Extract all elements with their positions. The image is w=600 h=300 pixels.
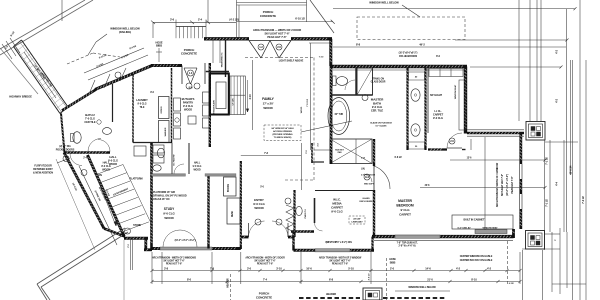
laundry south wall	[133, 142, 172, 144]
svg-text:TILE: TILE	[140, 106, 145, 109]
pwdr toilet	[296, 206, 302, 215]
family access note dashed box	[264, 125, 301, 141]
svg-text:9'-8 1/2: 9'-8 1/2	[394, 157, 402, 159]
master toilet	[333, 76, 337, 86]
svg-text:HEADER: HEADER	[326, 293, 336, 296]
svg-text:DESK: DESK	[232, 211, 234, 217]
dimension line along NW diagonal	[88, 55, 148, 80]
svg-text:4'-2: 4'-2	[456, 266, 461, 270]
svg-text:SKYLIGHT HGT 7'-6": SKYLIGHT HGT 7'-6"	[329, 261, 350, 263]
linen dashed box	[349, 216, 365, 224]
butler counters east	[203, 92, 210, 103]
powder toilet	[157, 148, 164, 158]
svg-text:WINDOW WELL BELOW: WINDOW WELL BELOW	[369, 1, 399, 5]
exterior wall jog right of doors	[329, 39, 332, 66]
tub platform wall	[311, 143, 313, 163]
svg-text:SKYLIGHT HGT 7'-6": SKYLIGHT HGT 7'-6"	[501, 174, 504, 196]
nook cabinets top	[429, 69, 463, 77]
extension verticals from top wall	[518, 0, 520, 121]
family stairs	[230, 76, 246, 115]
pwdr east wall	[314, 198, 316, 223]
bath2 toilet	[73, 132, 81, 144]
bath-wic dividing wall	[373, 139, 375, 166]
exterior wall top A-right	[291, 37, 332, 40]
bath2 shower	[103, 128, 112, 135]
front steps	[176, 26, 206, 28]
exterior wall top A-left	[204, 37, 249, 40]
svg-text:ARCH TRANSOM — WIDTH OF 2 DOOR: ARCH TRANSOM — WIDTH OF 2 DOOR	[253, 28, 301, 32]
svg-text:7'-0 CLG: 7'-0 CLG	[85, 117, 95, 121]
svg-text:STUDY: STUDY	[164, 207, 175, 211]
study french door arcs	[163, 230, 180, 247]
svg-text:7'-8" TOP (SUB HGT,: 7'-8" TOP (SUB HGT,	[397, 243, 418, 245]
corner L wall	[144, 238, 147, 250]
svg-text:17' x 20': 17' x 20'	[263, 102, 274, 106]
svg-text:WINDOW WELL BELOW: WINDOW WELL BELOW	[408, 286, 436, 289]
bridge corridor walls	[14, 47, 61, 114]
right dim horizontals	[333, 8, 575, 10]
nook interior line	[427, 67, 429, 134]
svg-text:24"x48": 24"x48"	[353, 218, 361, 221]
svg-text:ENCLOSURE: ENCLOSURE	[359, 201, 373, 203]
study east wall	[207, 176, 209, 249]
svg-text:TRANS. ON: TRANS. ON	[372, 78, 384, 81]
exterior wall D right of family	[464, 67, 467, 134]
family east extension lines	[310, 43, 312, 150]
svg-text:(10'-2" x 8'-6" x 8'-2") 46%: (10'-2" x 8'-6" x 8'-2") 46%	[326, 241, 352, 244]
corridor wall west	[209, 63, 211, 147]
bridge dimension line	[10, 38, 20, 53]
svg-text:HALL: HALL	[103, 161, 110, 165]
vanity cabinets	[409, 72, 425, 80]
front door V	[184, 68, 191, 84]
svg-text:13'-6: 13'-6	[467, 158, 473, 160]
top dim labels mid	[333, 46, 566, 48]
svg-text:WOOD: WOOD	[164, 216, 174, 220]
svg-text:TRASH/RECYC: TRASH/RECYC	[221, 52, 224, 67]
outer site line SW	[56, 159, 95, 250]
laundry west wall	[132, 74, 134, 143]
svg-text:CENTER WINDOW ON GABLE: CENTER WINDOW ON GABLE	[460, 255, 493, 258]
svg-text:(RAILING): (RAILING)	[119, 30, 131, 34]
svg-text:7'-2 1/2: 7'-2 1/2	[582, 196, 585, 204]
vanity walls	[406, 68, 408, 150]
svg-text:10'-6: 10'-6	[306, 266, 312, 270]
bedroom south window band	[395, 235, 440, 238]
svg-text:7'-1 1/2: 7'-1 1/2	[546, 199, 549, 207]
svg-text:9'-0 CLG: 9'-0 CLG	[193, 166, 202, 168]
kitchen cabinets lower	[134, 146, 146, 156]
pwdr south wall	[291, 230, 314, 232]
exterior diagonal wall SW cap	[104, 229, 125, 237]
svg-text:2'-8" W x 4'-6" H): 2'-8" W x 4'-6" H)	[399, 245, 416, 248]
svg-text:WOOD: WOOD	[184, 108, 192, 112]
svg-text:LI. CL.: LI. CL.	[434, 109, 442, 113]
svg-text:9' CLG: 9' CLG	[400, 208, 410, 212]
svg-text:7'-1 1/2: 7'-1 1/2	[546, 157, 549, 165]
svg-text:GLASS DOOR: GLASS DOOR	[371, 81, 386, 84]
svg-text:BUILT IN CABINET: BUILT IN CABINET	[464, 219, 485, 222]
svg-text:(PROVIDE OPENING: (PROVIDE OPENING	[273, 134, 293, 136]
dashed verticals bottom	[230, 274, 232, 300]
bath west wall	[330, 66, 333, 164]
closet partition	[188, 143, 190, 174]
svg-text:5'-10: 5'-10	[348, 266, 354, 270]
svg-text:SKYLIGHT: SKYLIGHT	[430, 94, 443, 97]
laundry-butler wall	[171, 68, 173, 143]
window well below dashed rect top	[357, 17, 465, 40]
family dim vertical	[252, 60, 254, 130]
bath2 nw wall	[62, 90, 96, 111]
master bedroom door arc	[374, 166, 390, 189]
study south wall	[152, 247, 241, 250]
svg-text:BATH: BATH	[373, 102, 382, 106]
exterior wall C upper-middle	[331, 65, 467, 68]
entry east wall	[293, 190, 295, 237]
bottom extension verticals	[151, 252, 153, 284]
svg-text:ARCH TRANSOM - WIDTH OF 3 WIND: ARCH TRANSOM - WIDTH OF 3 WINDOWS	[152, 257, 196, 260]
svg-text:WOOD: WOOD	[301, 106, 303, 113]
svg-text:(10'-2" x 8'-6" x 8'-2"): (10'-2" x 8'-6" x 8'-2")	[175, 240, 196, 242]
svg-text:CONCRETE: CONCRETE	[256, 296, 272, 300]
svg-text:W/D SOFT: W/D SOFT	[364, 184, 375, 186]
svg-text:BATH 2: BATH 2	[85, 113, 95, 117]
svg-text:WOOD: WOOD	[102, 169, 110, 172]
svg-text:4'-10: 4'-10	[249, 94, 252, 100]
svg-text:6'-10 1/2: 6'-10 1/2	[295, 17, 305, 21]
exterior diagonal wall SW left	[64, 153, 104, 229]
nook door arc	[447, 133, 462, 148]
mud-set shower X box	[330, 139, 372, 164]
corridor south wall	[206, 71, 229, 73]
header dashed beam right	[383, 297, 446, 299]
svg-text:PEAK HGT 7'-6": PEAK HGT 7'-6"	[257, 263, 273, 266]
exterior wall top-left horizontal	[151, 64, 182, 67]
svg-text:PEAK HGT 7'-6": PEAK HGT 7'-6"	[166, 263, 182, 266]
nook bench right	[459, 80, 466, 130]
svg-text:ARCH TRANSOM - WIDTH OF 3 WIND: ARCH TRANSOM - WIDTH OF 3 WINDOW	[496, 162, 499, 207]
svg-text:BEDROOM: BEDROOM	[396, 204, 413, 208]
toilet room	[331, 94, 373, 96]
bottom-left corner wall	[124, 237, 148, 240]
svg-text:8'-8: 8'-8	[356, 43, 361, 47]
svg-text:BOOKS: BOOKS	[228, 183, 230, 192]
svg-text:3'-6: 3'-6	[170, 18, 175, 22]
roof diagonal upper-left	[0, 0, 85, 49]
svg-text:21'-0: 21'-0	[427, 277, 433, 281]
exterior diagonal wall SW right	[88, 155, 125, 236]
svg-text:9'-0 CLG: 9'-0 CLG	[108, 159, 118, 163]
svg-text:THEATER ABV: THEATER ABV	[213, 99, 216, 113]
svg-text:POCKET DOORS: POCKET DOORS	[56, 148, 75, 151]
dimension row top-door	[237, 21, 333, 23]
svg-text:HALL: HALL	[194, 162, 201, 165]
svg-text:CARPET: CARPET	[399, 213, 411, 217]
wic west wall lower	[292, 232, 294, 251]
bedroom north wall at nook	[428, 148, 447, 150]
svg-text:WOOD: WOOD	[193, 170, 201, 172]
svg-text:PAN: PAN	[338, 151, 342, 154]
svg-text:CONCRETE: CONCRETE	[181, 52, 197, 56]
svg-text:DRYER: DRYER	[161, 106, 163, 113]
bath2 south wall Q	[64, 151, 110, 153]
light shelf dashed	[245, 57, 313, 59]
entry east zigzag closet	[286, 205, 294, 232]
light shelf dashed vertical	[313, 58, 315, 166]
svg-text:PEAK HGT 7'-6": PEAK HGT 7'-6"	[511, 176, 514, 193]
study-entry cabinets	[224, 177, 237, 196]
double entry door triangles	[249, 41, 261, 59]
svg-text:60'-8 3/4: 60'-8 3/4	[570, 165, 573, 174]
bath shower NE	[357, 68, 373, 95]
svg-text:GLASS ON TUB DECK: GLASS ON TUB DECK	[370, 122, 392, 125]
entry north dim	[241, 155, 301, 157]
svg-text:ARCH TRANSOM - WIDTH OF 2 WIND: ARCH TRANSOM - WIDTH OF 2 WINDOW	[319, 257, 362, 260]
svg-text:4'-2: 4'-2	[487, 266, 492, 270]
wic south wall K	[294, 249, 375, 252]
svg-text:8'-10: 8'-10	[471, 277, 477, 281]
svg-text:84" WIDE BY 54" HIGH: 84" WIDE BY 54" HIGH	[272, 127, 294, 130]
svg-text:PEAK HGT 7'-6": PEAK HGT 7'-6"	[267, 35, 287, 39]
svg-text:CENTER BOX BAY ON GABLE: CENTER BOX BAY ON GABLE	[460, 259, 493, 262]
header dashed beam	[299, 297, 360, 299]
study west wall O	[150, 143, 153, 249]
pwdr door arc	[315, 223, 323, 231]
svg-text:G-6: G-6	[365, 175, 370, 179]
svg-text:WOOD: WOOD	[254, 206, 264, 210]
svg-text:HIGHWAY BRIDGE: HIGHWAY BRIDGE	[9, 95, 32, 99]
svg-text:HALL: HALL	[109, 155, 117, 159]
svg-text:ARCH TRANSOM - WIDTH OF 2 DOOR: ARCH TRANSOM - WIDTH OF 2 DOOR	[245, 257, 285, 260]
svg-text:-6 1/2: -6 1/2	[508, 283, 514, 285]
svg-text:BUTLER'S: BUTLER'S	[182, 97, 195, 101]
bedroom west wall upper	[373, 139, 375, 166]
svg-text:WASHER: WASHER	[164, 127, 167, 136]
svg-text:9'-0 CLG: 9'-0 CLG	[331, 210, 343, 214]
svg-text:WINDOW WELL BELOW: WINDOW WELL BELOW	[110, 27, 140, 31]
bedroom south wall inner face	[374, 239, 513, 241]
svg-text:49'-2: 49'-2	[419, 43, 425, 47]
existing house outline bottom-left	[37, 228, 125, 284]
site diagonal left of bridge	[0, 48, 38, 94]
tub	[328, 98, 350, 135]
bath2 door arcs	[88, 139, 101, 152]
svg-text:9'-0 CLG: 9'-0 CLG	[433, 116, 443, 120]
svg-text:20'-8: 20'-8	[425, 185, 431, 187]
svg-text:9'-0 CLG: 9'-0 CLG	[372, 105, 382, 109]
svg-text:9'-0 CLG: 9'-0 CLG	[183, 104, 193, 108]
bottom dim row 2	[152, 281, 520, 283]
svg-text:MASTER: MASTER	[398, 199, 412, 203]
svg-text:LIN.: LIN.	[361, 169, 365, 171]
master bedroom west wall I	[373, 190, 375, 237]
svg-text:CARPET: CARPET	[433, 113, 444, 117]
svg-text:3'-10: 3'-10	[276, 266, 282, 270]
svg-text:46% HEADROOM: 46% HEADROOM	[399, 55, 417, 58]
wic east wall	[371, 237, 373, 251]
svg-text:WOOD: WOOD	[263, 106, 273, 110]
powder partition	[171, 143, 173, 174]
window seat band	[475, 230, 507, 234]
butler counters west	[174, 98, 181, 111]
svg-text:WINDOW SEAT: WINDOW SEAT	[454, 84, 457, 99]
svg-text:CER TILE: CER TILE	[84, 120, 96, 124]
front porch recess	[181, 66, 183, 85]
platform gray bars	[152, 174, 186, 177]
svg-text:DN: DN	[98, 173, 102, 177]
wic north wall	[315, 190, 374, 192]
svg-text:2'-4: 2'-4	[198, 18, 203, 22]
svg-text:(10'-2"x8'-6"x8'-2"): (10'-2"x8'-6"x8'-2")	[399, 53, 418, 55]
bottom dim row 1	[152, 270, 520, 272]
svg-text:7'-10 1/2: 7'-10 1/2	[307, 98, 309, 107]
svg-text:PWDR 7-0: PWDR 7-0	[305, 208, 307, 218]
entry west wall	[240, 161, 242, 249]
diagonal exterior wall NW	[95, 66, 152, 90]
svg-text:PEAK HGT 7'-6": PEAK HGT 7'-6"	[332, 263, 348, 266]
built-in cabinet	[452, 215, 513, 229]
hall-pwdr thin line	[301, 143, 303, 190]
svg-text:B.I. PANTRY: B.I. PANTRY	[173, 154, 176, 166]
svg-text:PLATFORM: PLATFORM	[129, 178, 142, 181]
svg-text:STONE: STONE	[133, 224, 141, 227]
svg-text:6'-8: 6'-8	[329, 277, 334, 281]
svg-text:& NEW ADDITION: & NEW ADDITION	[33, 172, 53, 175]
svg-text:61" GLASS: 61" GLASS	[376, 125, 388, 128]
porch roof lines top	[237, 2, 307, 4]
dn arrow	[98, 180, 116, 226]
svg-text:CER. TILE: CER. TILE	[371, 109, 384, 113]
svg-text:14'-6: 14'-6	[425, 266, 431, 270]
svg-text:CONCRETE: CONCRETE	[260, 14, 276, 18]
stone band lines	[79, 166, 117, 245]
fireplace	[210, 74, 229, 115]
master bedroom SE corner	[512, 229, 515, 238]
svg-text:LINEN ABV: LINEN ABV	[352, 221, 364, 224]
svg-text:(4'-2 1/2): (4'-2 1/2)	[229, 19, 238, 22]
svg-text:(10'-2" x 8'-4" x 8'-2"): (10'-2" x 8'-4" x 8'-2")	[506, 174, 509, 196]
bath2-laundry partition	[112, 84, 114, 122]
dimension row top-left	[153, 21, 236, 23]
dashed well outline left	[67, 53, 93, 64]
svg-text:BIBB: BIBB	[390, 262, 396, 265]
beam to column E	[467, 132, 524, 135]
svg-text:8'-0: 8'-0	[187, 277, 192, 281]
hall dashed ceiling line	[285, 179, 314, 181]
corner step lines	[130, 238, 132, 271]
column NE	[526, 122, 545, 141]
basement stairs	[95, 165, 123, 176]
svg-text:66" TUB: 66" TUB	[335, 114, 344, 116]
svg-text:LIGHT SHELF ABOVE: LIGHT SHELF ABOVE	[279, 60, 304, 63]
svg-text:SKYLIGHT HGT 7'-6": SKYLIGHT HGT 7'-6"	[254, 261, 275, 263]
corridor wall east	[225, 41, 227, 78]
svg-text:7'-4: 7'-4	[263, 277, 268, 281]
vanity sinks	[411, 89, 420, 101]
svg-text:7'-6: 7'-6	[210, 266, 215, 270]
svg-text:TO MECH SPACE): TO MECH SPACE)	[274, 136, 292, 139]
svg-text:4'-6 1/2: 4'-6 1/2	[368, 273, 371, 281]
column bottom right	[526, 231, 545, 250]
master bedroom east wall G	[519, 133, 522, 164]
svg-text:3'-0: 3'-0	[247, 266, 252, 270]
bath2 west wall	[61, 114, 65, 153]
svg-text:9'-0 CLG: 9'-0 CLG	[163, 212, 175, 216]
roof diagonal top-center	[310, 0, 334, 33]
svg-text:ACCESS OPENING: ACCESS OPENING	[273, 130, 292, 133]
svg-text:2'-0: 2'-0	[390, 266, 395, 270]
svg-text:SKYLIGHT HGT 7'-6": SKYLIGHT HGT 7'-6"	[264, 32, 290, 36]
corridor inner lines	[212, 41, 214, 64]
laundry appliances	[159, 97, 170, 119]
svg-text:UP 16R: UP 16R	[233, 98, 235, 105]
column bottom center	[363, 288, 382, 300]
right dim verticals	[579, 0, 581, 300]
svg-text:HEADER: HEADER	[227, 278, 230, 288]
svg-text:PANTRY: PANTRY	[183, 101, 194, 105]
svg-text:SKYLIGHT HGT 7'-6": SKYLIGHT HGT 7'-6"	[163, 261, 184, 263]
svg-text:GLASS: GLASS	[362, 197, 370, 200]
svg-text:3'-8: 3'-8	[164, 266, 169, 270]
svg-text:ON 2x6 16" OC: ON 2x6 16" OC	[153, 198, 170, 201]
entry south wall M with doors	[241, 236, 249, 239]
svg-text:FAMILY: FAMILY	[262, 97, 274, 101]
svg-text:BIBB: BIBB	[156, 44, 162, 48]
